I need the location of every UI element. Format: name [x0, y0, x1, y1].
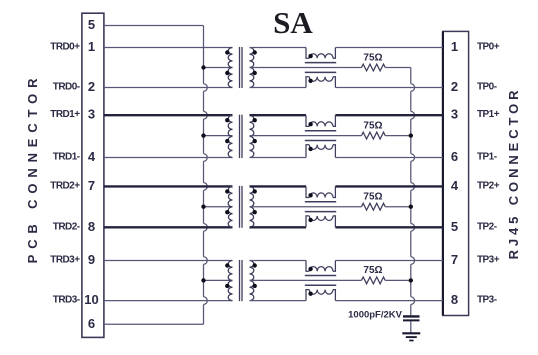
svg-text:PCB CONNECTOR: PCB CONNECTOR — [25, 73, 40, 264]
svg-text:10: 10 — [84, 292, 98, 307]
common-mode choke L2 — [305, 115, 336, 157]
wire choke L1 to pin 2 (TP0-) — [335, 87, 443, 89]
L1 phase dots — [308, 54, 312, 58]
wire T4 primary center tap to bus — [204, 279, 233, 281]
wire T1 secondary bottom to choke L1 — [250, 87, 307, 89]
svg-text:3: 3 — [88, 107, 95, 122]
svg-text:8: 8 — [88, 219, 95, 234]
T1 phase dots — [225, 50, 229, 54]
junction dot R2 to bus — [409, 133, 413, 137]
svg-text:TRD2+: TRD2+ — [50, 180, 80, 191]
wire resistor R2 to termination bus — [385, 135, 411, 137]
svg-text:TRD0+: TRD0+ — [50, 42, 80, 53]
wire T2 secondary center tap to resistor R2 — [250, 135, 362, 137]
svg-text:TRD3-: TRD3- — [53, 295, 80, 306]
wire T4 secondary bottom to choke L4 — [250, 300, 307, 302]
common-mode choke L1 — [305, 48, 336, 88]
T3 phase dots — [225, 189, 229, 193]
svg-text:RJ45 CONNECTOR: RJ45 CONNECTOR — [506, 87, 521, 260]
wire T3 secondary top to choke L3 — [250, 185, 307, 187]
transformer T3 — [228, 186, 254, 228]
transformer T2 — [228, 115, 254, 158]
svg-text:TP3+: TP3+ — [477, 255, 500, 266]
junction dot T1 primary center tap — [201, 65, 205, 69]
wire TRD2- pin8 to T3 primary bottom — [104, 226, 233, 228]
wire TRD3+ pin9 to T4 primary top — [104, 260, 233, 262]
L3 phase dots — [308, 193, 312, 197]
svg-text:7: 7 — [88, 178, 95, 193]
junction dot R3 to bus — [409, 205, 413, 209]
termination bus to capacitor — [411, 68, 415, 316]
wire TRD3- pin10 to T4 primary bottom — [104, 300, 233, 302]
svg-text:TP0-: TP0- — [477, 82, 497, 93]
transformer T4 — [228, 260, 254, 301]
wire choke L4 to pin 7 (TP3+) — [335, 260, 443, 262]
wire TRD1+ pin3 to T2 primary top — [104, 114, 233, 116]
wire choke L4 to pin 8 (TP3-) — [335, 300, 443, 302]
wire resistor R3 to termination bus — [385, 206, 411, 208]
common-mode choke L4 — [305, 261, 336, 301]
wire T1 primary center tap to bus — [204, 67, 233, 69]
wire TRD0- pin2 to T1 primary bottom — [104, 87, 233, 89]
wire choke L2 to pin 3 (TP1+) — [335, 114, 443, 116]
wire T2 secondary bottom to choke L2 — [250, 157, 307, 159]
wire choke L3 to pin 4 (TP2+) — [335, 185, 443, 187]
svg-text:7: 7 — [451, 252, 458, 267]
svg-text:4: 4 — [88, 149, 96, 164]
junction dot T4 primary center tap — [201, 278, 205, 282]
resistor R1 75 ohm — [362, 64, 386, 71]
L2 phase dots — [308, 122, 312, 126]
resistor R3 75 ohm — [362, 203, 386, 210]
transformer T1 — [228, 47, 254, 88]
wire resistor R4 to termination bus — [385, 279, 411, 281]
capacitor C1 1000pF/2KV — [403, 315, 420, 317]
svg-text:TP1+: TP1+ — [477, 109, 500, 120]
svg-text:8: 8 — [451, 292, 458, 307]
PCB connector box J1 — [82, 13, 104, 337]
primary center-tap bus (pin5 to pin6) — [204, 26, 208, 325]
T4 phase dots — [225, 263, 229, 267]
junction dot R4 to bus — [409, 278, 413, 282]
svg-text:2: 2 — [451, 79, 458, 94]
wire T1 secondary top to choke L1 — [250, 47, 307, 49]
wire TRD2+ pin7 to T3 primary top — [104, 185, 233, 187]
common-mode choke L3 — [305, 186, 336, 227]
svg-text:TP2+: TP2+ — [477, 180, 500, 191]
svg-text:TRD0-: TRD0- — [53, 82, 80, 93]
svg-text:75Ω: 75Ω — [363, 192, 382, 203]
junction dot T2 primary center tap — [201, 133, 205, 137]
wire T2 secondary top to choke L2 — [250, 114, 307, 116]
wire capacitor to ground — [410, 321, 412, 332]
svg-text:1: 1 — [88, 39, 95, 54]
svg-text:9: 9 — [88, 252, 95, 267]
svg-text:5: 5 — [88, 17, 95, 32]
RJ45 box left edge (thick) — [442, 31, 444, 315]
ground symbol — [402, 333, 420, 340]
wire T2 primary center tap to bus — [204, 135, 233, 137]
wire choke L1 to pin 1 (TP0+) — [335, 47, 443, 49]
wire pin5 to center-tap bus — [104, 25, 204, 27]
wire choke L2 to pin 6 (TP1-) — [335, 157, 443, 159]
wire pin6 to center-tap bus — [104, 323, 204, 325]
svg-text:TRD3+: TRD3+ — [50, 255, 80, 266]
wire resistor R1 to termination bus — [385, 67, 411, 69]
resistor R2 75 ohm — [362, 132, 386, 139]
wire T4 secondary top to choke L4 — [250, 260, 307, 262]
wire T4 secondary center tap to resistor R4 — [250, 279, 362, 281]
resistor R4 75 ohm — [362, 277, 386, 284]
svg-text:TP1-: TP1- — [477, 152, 497, 163]
svg-text:5: 5 — [451, 219, 458, 234]
wire T1 secondary center tap to resistor R1 — [250, 67, 362, 69]
wire T3 secondary center tap to resistor R3 — [250, 206, 362, 208]
svg-text:75Ω: 75Ω — [363, 265, 382, 276]
svg-text:75Ω: 75Ω — [363, 52, 382, 63]
wire TRD1- pin4 to T2 primary bottom — [104, 157, 233, 159]
svg-text:2: 2 — [88, 79, 95, 94]
svg-text:6: 6 — [88, 316, 95, 331]
svg-text:6: 6 — [451, 149, 458, 164]
svg-text:TRD1-: TRD1- — [53, 152, 80, 163]
svg-text:TP2-: TP2- — [477, 221, 497, 232]
svg-text:75Ω: 75Ω — [363, 120, 382, 131]
T2 phase dots — [225, 118, 229, 122]
svg-text:SA: SA — [273, 5, 313, 40]
svg-text:1: 1 — [451, 39, 458, 54]
wire T3 secondary bottom to choke L3 — [250, 226, 307, 228]
wire choke L3 to pin 5 (TP2-) — [335, 226, 443, 228]
wire T3 primary center tap to bus — [204, 206, 233, 208]
svg-text:1000pF/2KV: 1000pF/2KV — [348, 310, 403, 321]
svg-text:3: 3 — [451, 107, 458, 122]
wire TRD0+ pin1 to T1 primary top — [104, 47, 233, 49]
svg-text:TRD1+: TRD1+ — [50, 109, 80, 120]
svg-text:TP0+: TP0+ — [477, 42, 500, 53]
junction dot T3 primary center tap — [201, 205, 205, 209]
svg-text:TP3-: TP3- — [477, 295, 497, 306]
RJ45 connector box J2 — [443, 31, 469, 315]
svg-text:4: 4 — [451, 178, 459, 193]
svg-text:TRD2-: TRD2- — [53, 221, 80, 232]
L4 phase dots — [308, 267, 312, 271]
